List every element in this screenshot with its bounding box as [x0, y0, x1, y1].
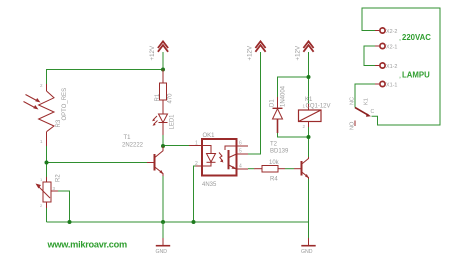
wire OK1 pin4 to R4 [248, 168, 254, 170]
wire net N3: LED1 cathode / T1 collector / OK1 anode [163, 135, 189, 146]
junction dot at R3/R2/T1 node [45, 161, 49, 165]
svg-text:NO: NO [349, 121, 355, 130]
svg-text:6: 6 [239, 141, 242, 147]
svg-text:2N2222: 2N2222 [122, 143, 144, 149]
svg-text:BD139: BD139 [270, 149, 289, 155]
svg-text:,: , [399, 73, 401, 80]
potentiometer R2 [38, 177, 58, 208]
svg-text:www.mikroavr.com: www.mikroavr.com [47, 239, 127, 249]
wire X2-2 to relay common loop [362, 8, 440, 125]
svg-text:K1: K1 [305, 97, 313, 103]
wire OK1 pin5 to +12V P2 [248, 52, 261, 154]
svg-text:R3: R3 [56, 119, 62, 127]
junction dot wiper/rail [68, 220, 72, 224]
svg-text:1: 1 [195, 141, 198, 147]
junction dot at R1 top node [161, 68, 165, 72]
svg-text:OPTO_RES: OPTO_RES [62, 88, 68, 121]
svg-text:R1: R1 [155, 93, 161, 101]
wire net N2: R3 bottom to T1 base and R2 [47, 146, 148, 177]
supply +12V P3 arrow [303, 41, 313, 52]
svg-text:LED1: LED1 [169, 114, 175, 130]
connector pad X2-1 [380, 43, 385, 48]
svg-text:5: 5 [239, 149, 242, 155]
svg-text:+12V: +12V [149, 45, 156, 60]
relay coil K1 CQ1-12V [299, 104, 322, 127]
supply +12V P1 arrow [158, 41, 168, 52]
wire D1 anode to node [278, 133, 309, 137]
svg-text:R2: R2 [56, 174, 62, 182]
wire +12V P3 to relay coil and D1 cathode [278, 52, 309, 104]
svg-text:T2: T2 [270, 142, 278, 148]
svg-text:4N35: 4N35 [202, 182, 217, 188]
svg-text:X2-1: X2-1 [386, 44, 397, 50]
wire T2 emitter to ground rail [308, 179, 310, 222]
svg-text:4: 4 [239, 164, 242, 170]
junction dot OK1 pin2/rail [192, 220, 196, 224]
svg-text:X1-1: X1-1 [386, 82, 397, 88]
svg-text:,: , [399, 35, 401, 42]
svg-text:10k: 10k [269, 160, 280, 166]
diode LED1 [153, 114, 168, 135]
connector pad X1-2 [380, 63, 385, 68]
transistor T1 2N2222 [147, 147, 163, 177]
svg-text:GND: GND [156, 249, 168, 255]
wire OK1 pin2 to ground rail [194, 166, 196, 222]
svg-text:C: C [371, 109, 375, 115]
connector pad X2-2 [380, 28, 385, 33]
svg-text:OK1: OK1 [203, 133, 216, 139]
svg-text:CQ1-12V: CQ1-12V [306, 103, 331, 109]
svg-text:470: 470 [167, 93, 173, 104]
transistor T2 BD139 [294, 157, 309, 179]
svg-text:+12V: +12V [246, 45, 253, 60]
wire X1-1 to relay NC contact [355, 84, 375, 108]
connector pad X1-1 [380, 81, 385, 86]
svg-text:NC: NC [349, 97, 355, 105]
svg-text:1N4004: 1N4004 [281, 85, 287, 107]
junction dot emitter/rail [161, 220, 165, 224]
relay contact K1 [355, 108, 369, 116]
optocoupler OK1 4N35 [189, 139, 248, 176]
svg-text:X1-2: X1-2 [386, 64, 397, 70]
junction dot relay bottom node [307, 135, 311, 139]
svg-text:220VAC: 220VAC [402, 33, 431, 42]
svg-text:K1: K1 [364, 98, 370, 105]
svg-text:+12V: +12V [294, 45, 301, 60]
svg-text:LAMPU: LAMPU [402, 70, 430, 79]
wire net N1: +12V rail to R3 top [47, 52, 164, 84]
svg-text:D1: D1 [270, 99, 276, 107]
junction dot +12V/D1 node [307, 75, 311, 79]
junction dot collector node [161, 144, 165, 148]
resistor R1 [160, 70, 167, 115]
ground symbol GND2 [308, 222, 310, 238]
resistor R3 (LDR photoresistor) [24, 84, 55, 146]
supply +12V P2 arrow [255, 41, 265, 52]
resistor R4 [254, 166, 285, 173]
diode D1 1N4004 [273, 97, 283, 133]
wire R4 to T2 base [285, 168, 294, 170]
svg-text:R4: R4 [270, 177, 278, 183]
wire X2-1 to X1-2 [364, 46, 375, 66]
svg-text:GND: GND [301, 249, 313, 255]
ground symbol GND1 [162, 222, 164, 238]
svg-text:X2-2: X2-2 [386, 29, 397, 35]
wire T1 emitter to ground rail [162, 176, 164, 222]
relay contact NO stub [354, 121, 356, 127]
wire net GND: R2 wiper + bottom rail [47, 191, 309, 222]
svg-text:T1: T1 [124, 135, 132, 141]
wire T2 collector to relay/diode node [308, 127, 310, 157]
